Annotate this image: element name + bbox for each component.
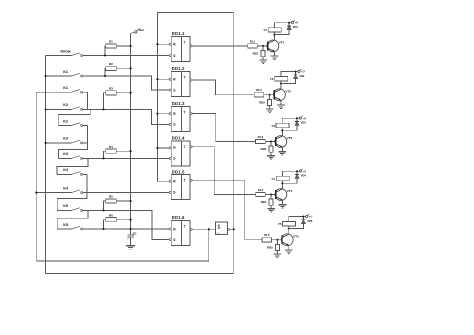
resistor RL2	[254, 93, 264, 97]
wire link row7 to row8	[57, 158, 88, 174]
svg-text:У5: У5	[278, 222, 282, 226]
svg-text:DD1.6: DD1.6	[172, 215, 185, 220]
svg-text:RL2: RL2	[256, 88, 262, 92]
ground (VT5 emitter)	[285, 249, 293, 251]
resistor RL1	[248, 44, 258, 48]
switch K2 (row 4)	[46, 108, 72, 110]
svg-text:К3: К3	[63, 136, 68, 141]
node base VT4	[270, 193, 272, 195]
ground (RB2)	[266, 108, 274, 110]
terminal +U (stage 4)	[297, 169, 306, 174]
svg-text:RB4: RB4	[261, 200, 267, 204]
resistor R2	[106, 66, 117, 70]
node rail A / row 6	[45, 142, 47, 144]
svg-text:+U: +U	[295, 21, 299, 25]
wire collector VT1	[274, 35, 276, 41]
trigger DD1.4	[169, 136, 192, 166]
resistor R5	[106, 199, 117, 203]
wire coil У5 to supply	[289, 217, 304, 222]
relay coil У5	[283, 222, 296, 226]
wire emitter VT3 to ground	[281, 147, 283, 152]
resistor RB2	[268, 99, 272, 105]
wire right vertical bus	[233, 12, 235, 273]
ground (RB3)	[267, 155, 275, 157]
svg-text:VD5: VD5	[307, 219, 313, 223]
wire reset bus (to R inputs)	[157, 12, 169, 181]
wire riser to inverter input	[208, 229, 210, 261]
svg-text:С1: С1	[133, 232, 137, 236]
svg-text:VT4: VT4	[287, 189, 293, 193]
wire link row4 to row5	[58, 109, 90, 125]
resistor RB1	[261, 51, 265, 57]
wire buffer output to bus	[228, 228, 230, 230]
svg-text:DD1.2: DD1.2	[172, 66, 185, 71]
svg-text:R5: R5	[109, 195, 113, 199]
ground (C1)	[126, 245, 135, 247]
svg-text:RL3: RL3	[258, 135, 264, 139]
wire link row5 to row7	[59, 126, 88, 159]
switch K1 (row 2)	[46, 75, 72, 77]
wire reset to DD1.1 R	[157, 43, 169, 45]
svg-text:К4: К4	[63, 167, 68, 172]
resistor RL5	[262, 238, 272, 242]
wire Ukl supply bus	[130, 33, 132, 235]
wire DD1.2 out to VT2 stage	[192, 80, 254, 95]
wire bottom bus to right bus	[46, 273, 234, 275]
svg-text:R1: R1	[109, 40, 113, 44]
wire coil У4 to supply	[282, 171, 297, 176]
wire reset to DD1.4 R	[157, 147, 169, 149]
svg-text:+U: +U	[309, 215, 313, 219]
svg-text:RB5: RB5	[267, 245, 273, 249]
wire collector VT2	[280, 84, 282, 90]
resistor R3	[106, 91, 117, 95]
svg-text:R3: R3	[109, 86, 113, 90]
resistor RB3	[269, 146, 273, 152]
trigger DD1.6	[169, 215, 192, 245]
wire reset to DD1.2 R	[157, 78, 169, 80]
wire emitter VT1 to ground	[274, 52, 276, 57]
svg-text:VT5: VT5	[293, 235, 299, 239]
switch K3 (row 6)	[46, 142, 72, 144]
resistor R4	[106, 149, 117, 153]
wire coil У3 to supply	[282, 118, 297, 123]
svg-text:RB3: RB3	[261, 147, 267, 151]
relay coil У3	[276, 123, 289, 127]
diode VD4	[282, 171, 306, 183]
svg-text:+U: +U	[301, 70, 305, 74]
diode VD2	[281, 72, 305, 84]
relay coil У1	[268, 28, 281, 32]
diode VD3	[282, 118, 306, 130]
transistor VT3	[275, 136, 293, 148]
transistor VT5	[281, 234, 299, 246]
wire coil У1 to supply	[274, 23, 289, 28]
resistor RL4	[256, 192, 266, 196]
svg-text:VT3: VT3	[287, 136, 293, 140]
terminal +U (stage 5)	[303, 214, 312, 219]
svg-text:RL4: RL4	[258, 188, 264, 192]
resistor R6	[106, 218, 117, 222]
capacitor C1	[127, 234, 133, 236]
svg-text:RL1: RL1	[250, 39, 256, 43]
transistor VT1	[267, 40, 285, 52]
wire reset to DD1.3 R	[157, 113, 169, 115]
node rail A / row 2	[45, 75, 47, 77]
diode VD1	[274, 23, 298, 35]
trigger DD1.1	[169, 31, 192, 61]
node diode VD3 top	[296, 117, 298, 119]
ground (VT3 emitter)	[279, 151, 287, 153]
switch K5 second contact (row 11)	[57, 228, 71, 230]
ground (VT4 emitter)	[279, 204, 287, 206]
wire DD1.4 out to VT4 stage	[192, 147, 256, 195]
switch Кпож (row 1)	[46, 55, 72, 57]
wire collector VT5	[288, 229, 290, 235]
svg-text:NV: NV	[217, 233, 221, 235]
node diode VD1 top	[288, 22, 290, 24]
svg-text:RL5: RL5	[264, 233, 270, 237]
wire DD1.3 out to VT3 stage	[192, 114, 256, 142]
node base VT5	[276, 239, 278, 241]
junction dot row11 on Ukl bus	[130, 228, 132, 230]
svg-text:VT1: VT1	[279, 41, 285, 45]
svg-text:+U: +U	[302, 116, 306, 120]
node collector VT3	[281, 129, 283, 131]
switch K4 second contact (row 9)	[36, 192, 71, 194]
resistor RB5	[275, 244, 279, 250]
node base VT2	[269, 94, 271, 96]
svg-text:R6: R6	[109, 213, 113, 217]
transistor VT2	[274, 89, 292, 101]
node diode VD5 top	[302, 216, 304, 218]
svg-text:К5: К5	[63, 222, 68, 227]
resistor RL3	[256, 139, 266, 143]
node collector VT1	[273, 34, 275, 36]
ground (VT1 emitter)	[271, 55, 279, 57]
switch K4 (row 8)	[57, 173, 71, 175]
svg-text:R2: R2	[109, 62, 113, 66]
resistor RB4	[269, 199, 273, 205]
svg-text:Uкл: Uкл	[139, 28, 145, 32]
ground (RB1)	[259, 59, 267, 61]
wire coil У2 to supply	[281, 72, 296, 77]
wire DD1.6 output to buffer	[192, 228, 215, 230]
wire emitter VT2 to ground	[280, 100, 282, 105]
svg-text:У3: У3	[271, 124, 275, 128]
switch K3 second contact (row 7)	[59, 157, 72, 159]
node collector VT4	[281, 182, 283, 184]
wire top bus	[157, 11, 233, 13]
terminal +U (stage 1)	[289, 20, 298, 25]
node rail A / row 4	[45, 108, 47, 110]
svg-text:Кпож: Кпож	[61, 48, 71, 53]
svg-text:DD1.5: DD1.5	[172, 169, 185, 174]
ground (VT2 emitter)	[277, 104, 285, 106]
node rail B / row 9	[35, 192, 37, 194]
wire lower feedback bus	[36, 260, 209, 262]
svg-text:У1: У1	[264, 28, 268, 32]
svg-text:DD1.1: DD1.1	[172, 31, 185, 36]
terminal +U (stage 3)	[297, 116, 306, 121]
transistor VT4	[275, 189, 293, 201]
wire rail A (switch common, left vertical)	[45, 56, 47, 274]
ground (RB5)	[274, 253, 282, 255]
svg-text:R4: R4	[109, 145, 113, 149]
switch K2 second contact (row 5)	[58, 125, 71, 127]
wire DD1.1 out to VT1 stage	[192, 45, 248, 47]
wire link row8 to row10	[57, 174, 87, 210]
node diode VD4 top	[296, 170, 298, 172]
svg-text:DD1.4: DD1.4	[172, 136, 185, 141]
terminal Ukl	[131, 32, 135, 33]
buffer DD2 (logic 1 box)	[216, 222, 228, 235]
svg-text:1: 1	[217, 225, 220, 231]
node diode VD2 top	[295, 71, 297, 73]
switch K5 (row 10)	[57, 209, 71, 211]
svg-text:К4: К4	[63, 185, 68, 190]
trigger DD1.2	[169, 66, 192, 96]
node collector VT5	[288, 227, 290, 229]
wire collector VT3	[281, 130, 283, 136]
diode VD5	[289, 217, 313, 229]
wire emitter VT4 to ground	[282, 200, 284, 205]
svg-text:VD1: VD1	[293, 25, 299, 29]
relay coil У2	[275, 77, 288, 81]
svg-text:К5: К5	[63, 203, 68, 208]
trigger DD1.5	[169, 169, 192, 199]
ground (RB4)	[267, 208, 275, 210]
svg-text:VD4: VD4	[301, 174, 307, 178]
svg-text:DD1.3: DD1.3	[172, 101, 185, 106]
svg-text:У4: У4	[272, 177, 276, 181]
terminal +U (stage 2)	[296, 69, 305, 74]
wire collector VT4	[282, 183, 284, 189]
svg-text:К2: К2	[63, 102, 68, 107]
svg-text:RB1: RB1	[253, 52, 259, 56]
svg-text:К1: К1	[63, 69, 68, 74]
svg-text:У2: У2	[270, 77, 274, 81]
node base VT3	[270, 140, 272, 142]
node collector VT2	[280, 82, 282, 84]
switch K1 second contact (row 3)	[36, 91, 71, 93]
svg-text:К2: К2	[63, 118, 68, 123]
wire DD1.5 out to VT5 stage	[192, 180, 262, 240]
svg-text:К3: К3	[63, 151, 68, 156]
wire rail B (second switch common)	[35, 92, 37, 261]
svg-text:+U: +U	[303, 169, 307, 173]
svg-text:VD2: VD2	[299, 74, 305, 78]
relay coil У4	[276, 176, 289, 180]
wire emitter VT5 to ground	[288, 245, 290, 250]
node base VT1	[262, 45, 264, 47]
svg-text:VT2: VT2	[285, 90, 291, 94]
svg-text:RB2: RB2	[259, 100, 265, 104]
resistor R1	[106, 44, 117, 48]
svg-text:К1: К1	[63, 85, 68, 90]
trigger DD1.3	[169, 101, 192, 131]
svg-text:VD3: VD3	[301, 121, 307, 125]
wire link row10 to row11	[57, 210, 88, 229]
